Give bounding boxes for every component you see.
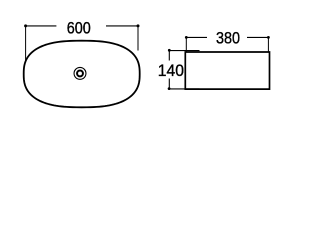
dim 600 left dot	[24, 24, 27, 27]
dim 380 right dot	[267, 36, 270, 39]
dim 380 line right segment	[247, 36, 268, 38]
dim 140 bottom extension line	[168, 88, 200, 90]
dim 600 right extension line	[137, 26, 139, 50]
dim 140 top dot	[168, 49, 171, 52]
basin side-view rectangle	[185, 52, 269, 89]
svg-text:140: 140	[158, 63, 184, 80]
drain inner circle	[77, 70, 83, 76]
basin top-view outline	[24, 41, 140, 108]
dim 380 left extension line	[185, 38, 187, 53]
svg-text:380: 380	[216, 30, 240, 48]
dim 380 right extension line	[267, 38, 269, 53]
dim 600 left extension line	[25, 26, 27, 62]
dim 600 line right segment	[106, 25, 138, 27]
dim 140 top extension line	[168, 50, 200, 52]
dim 380 left dot	[185, 36, 188, 39]
dim 600 right dot	[137, 24, 140, 27]
dim 380 line left segment	[186, 36, 207, 38]
dim 140 bottom dot	[168, 87, 171, 90]
drain outer circle	[74, 67, 86, 79]
dim 140 line bottom segment	[168, 79, 170, 89]
svg-text:600: 600	[67, 20, 91, 38]
dim 140 line top segment	[168, 50, 170, 60]
dim 600 line left segment	[26, 25, 57, 27]
